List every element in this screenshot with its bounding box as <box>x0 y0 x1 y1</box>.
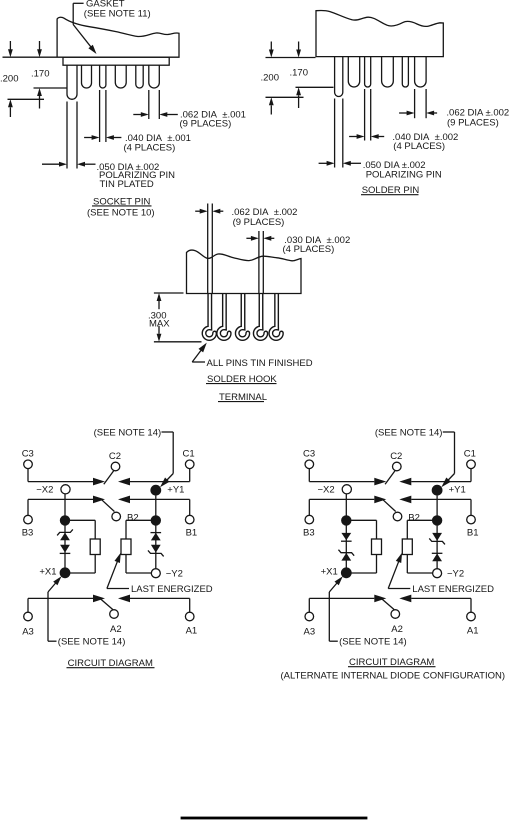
svg-text:A1: A1 <box>186 626 198 637</box>
svg-text:(SEE NOTE 10): (SEE NOTE 10) <box>87 207 155 218</box>
svg-text:B3: B3 <box>303 528 315 539</box>
svg-text:+X1: +X1 <box>39 567 56 578</box>
svg-text:(SEE NOTE 11): (SEE NOTE 11) <box>84 9 151 20</box>
svg-text:−X2: −X2 <box>318 485 335 496</box>
svg-text:POLARIZING PIN: POLARIZING PIN <box>366 170 442 181</box>
svg-text:LAST ENERGIZED: LAST ENERGIZED <box>131 584 213 595</box>
svg-text:−Y2: −Y2 <box>447 569 464 580</box>
svg-text:(4 PLACES): (4 PLACES) <box>283 244 335 255</box>
svg-text:A1: A1 <box>467 626 479 637</box>
svg-text:(4 PLACES): (4 PLACES) <box>393 141 445 152</box>
svg-text:A2: A2 <box>110 624 122 635</box>
svg-text:MAX: MAX <box>149 319 170 330</box>
svg-text:+Y1: +Y1 <box>449 484 466 495</box>
svg-text:.200: .200 <box>261 72 280 83</box>
svg-text:(4 PLACES): (4 PLACES) <box>124 143 176 154</box>
svg-text:B2: B2 <box>127 513 139 524</box>
svg-text:(SEE NOTE 14): (SEE NOTE 14) <box>94 427 162 438</box>
svg-text:C1: C1 <box>183 448 195 459</box>
svg-text:(9 PLACES): (9 PLACES) <box>447 117 499 128</box>
svg-text:C3: C3 <box>22 448 34 459</box>
svg-text:C2: C2 <box>390 451 402 462</box>
svg-text:−X2: −X2 <box>36 485 53 496</box>
svg-text:C1: C1 <box>464 448 476 459</box>
svg-text:(SEE NOTE 14): (SEE NOTE 14) <box>375 427 443 438</box>
svg-text:A3: A3 <box>22 626 34 637</box>
svg-text:ALL PINS TIN FINISHED: ALL PINS TIN FINISHED <box>207 358 313 369</box>
svg-text:.200: .200 <box>0 73 19 84</box>
svg-text:+X1: +X1 <box>321 567 338 578</box>
svg-text:A2: A2 <box>391 624 403 635</box>
svg-text:(ALTERNATE INTERNAL DIODE CONF: (ALTERNATE INTERNAL DIODE CONFIGURATION) <box>281 670 506 681</box>
svg-text:B3: B3 <box>22 528 34 539</box>
svg-text:TIN PLATED: TIN PLATED <box>100 179 154 190</box>
svg-text:(SEE NOTE 14): (SEE NOTE 14) <box>339 637 407 648</box>
svg-text:C2: C2 <box>109 451 121 462</box>
svg-text:+Y1: +Y1 <box>167 484 184 495</box>
svg-text:.170: .170 <box>290 67 309 78</box>
svg-text:(9 PLACES): (9 PLACES) <box>233 217 285 228</box>
svg-text:C3: C3 <box>303 448 315 459</box>
svg-text:B2: B2 <box>408 513 420 524</box>
svg-text:A3: A3 <box>304 626 316 637</box>
svg-text:B1: B1 <box>186 528 198 539</box>
svg-text:B1: B1 <box>467 528 479 539</box>
svg-text:.170: .170 <box>31 69 50 80</box>
svg-text:(SEE NOTE 14): (SEE NOTE 14) <box>58 637 126 648</box>
svg-text:−Y2: −Y2 <box>166 569 183 580</box>
svg-text:LAST ENERGIZED: LAST ENERGIZED <box>412 584 494 595</box>
svg-text:(9 PLACES): (9 PLACES) <box>180 118 232 129</box>
